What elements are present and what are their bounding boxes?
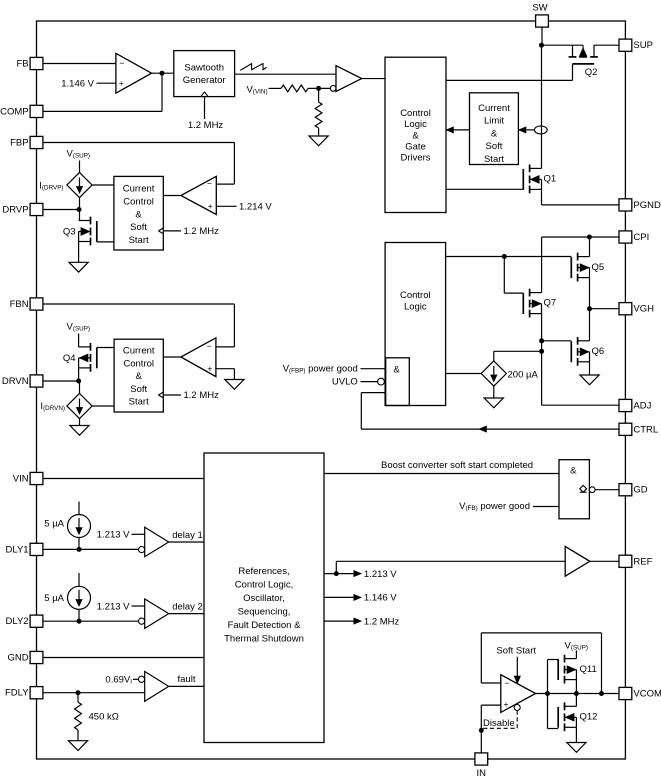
- svg-text:Q6: Q6: [592, 346, 605, 357]
- wire comparator output to current control: [163, 195, 181, 197]
- svg-text:0.69VI: 0.69VI: [105, 674, 132, 685]
- wire 1.213V to delay2: [132, 605, 145, 607]
- node VGH junction: [587, 306, 592, 311]
- svg-text:DRVN: DRVN: [2, 376, 29, 387]
- wire junction to Q6 gate: [542, 340, 572, 342]
- wire Q6 source to ground: [589, 362, 591, 375]
- node divider junction: [316, 86, 321, 91]
- ground below Q3: [69, 262, 88, 272]
- svg-text:Q1: Q1: [544, 174, 557, 185]
- sawtooth waveform symbol: [240, 64, 266, 71]
- block Current Control Soft Start DRVN: [114, 339, 163, 412]
- node DLY2 junction: [77, 619, 82, 624]
- svg-text:Start: Start: [129, 397, 149, 408]
- svg-text:FBP: FBP: [10, 138, 28, 149]
- svg-text:&: &: [135, 209, 142, 220]
- wire amplifier output to VCOM: [536, 693, 620, 695]
- svg-text:−: −: [505, 678, 510, 688]
- gate AND GD: [559, 460, 589, 519]
- svg-text:1.146 V: 1.146 V: [364, 593, 397, 604]
- wire Q12 drain to output: [575, 694, 577, 707]
- svg-text:&: &: [393, 365, 400, 376]
- pin FBN: [30, 298, 43, 310]
- wire Q1 source to PGND: [541, 189, 543, 205]
- wire 1.2MHz output: [324, 620, 355, 622]
- wire Q2 gate to control logic: [572, 64, 574, 81]
- wire SW stem: [541, 27, 543, 46]
- resistor 450k: [77, 693, 79, 702]
- svg-text:Sequencing,: Sequencing,: [238, 607, 291, 618]
- svg-text:ADJ: ADJ: [633, 401, 651, 412]
- wire CPI rail: [542, 236, 620, 238]
- transistor Q12: [564, 702, 566, 710]
- open drain symbol: [580, 485, 587, 492]
- node Q6 gate junction: [539, 338, 544, 343]
- wire current source to current control block: [92, 184, 114, 186]
- pin VIN: [30, 472, 43, 484]
- wire SW node to Q2: [542, 44, 584, 46]
- pin DLY1: [30, 543, 43, 555]
- node FDLY junction: [76, 690, 81, 695]
- wire 1.146V to error amp +: [97, 82, 116, 84]
- svg-text:1.213 V: 1.213 V: [97, 530, 130, 541]
- wire REF: [590, 560, 619, 562]
- node Q11/Q12 output junction: [574, 691, 579, 696]
- op-amp U1 error amplifier: [116, 53, 152, 93]
- current source 5uA DLY1: [78, 502, 80, 515]
- current source 200uA: [481, 361, 506, 386]
- wire common gate bracket: [547, 660, 549, 729]
- wire control logic to Q5 gate: [446, 256, 572, 258]
- svg-text:fault: fault: [178, 674, 196, 685]
- node gate tie junction: [545, 691, 550, 696]
- wire PWM comparator to control logic: [362, 78, 385, 80]
- wire error amp output to sawtooth generator: [152, 72, 174, 74]
- svg-text:Disable: Disable: [483, 718, 515, 729]
- node DRVP junction: [77, 207, 82, 212]
- wire 200uA to ground: [493, 386, 495, 398]
- pin DRVN: [30, 375, 43, 387]
- pin GND: [30, 651, 43, 663]
- node Q5/Q7 gate junction: [502, 254, 507, 259]
- svg-text:PGND: PGND: [633, 200, 661, 211]
- svg-text:IN: IN: [477, 768, 487, 779]
- wire + input to IN: [481, 704, 501, 706]
- wire Q11 drain to V(SUP): [575, 651, 577, 659]
- svg-text:DLY1: DLY1: [6, 544, 29, 555]
- svg-text:Logic: Logic: [404, 302, 427, 313]
- block Current Control Soft Start DRVP: [114, 176, 163, 250]
- svg-text:1.146 V: 1.146 V: [61, 79, 94, 90]
- node DLY1 junction: [77, 547, 82, 552]
- wire comparator output to current control DRVN: [163, 356, 181, 358]
- wire ADJ: [542, 404, 620, 406]
- wire V(FB) power good: [533, 506, 559, 508]
- block Control Logic: [385, 243, 446, 406]
- svg-text:Fault Detection &: Fault Detection &: [228, 620, 302, 631]
- wire current source to ground DRVN: [79, 419, 81, 426]
- svg-text:Current: Current: [478, 103, 510, 114]
- wire resistor to PWM comparator inverting input: [308, 87, 330, 89]
- gate AND for UVLO: [386, 358, 410, 406]
- block References Control Logic Oscillator: [204, 453, 324, 743]
- svg-text:delay 2: delay 2: [172, 602, 203, 613]
- svg-text:Control: Control: [400, 108, 431, 119]
- comparator fault: [145, 671, 169, 701]
- wire 5uA to DLY1 node: [78, 538, 80, 550]
- pin FB: [30, 57, 43, 69]
- ground below 200uA source: [484, 398, 503, 408]
- svg-text:Q11: Q11: [580, 664, 597, 675]
- wire DLY1: [43, 548, 139, 550]
- svg-text:Q7: Q7: [544, 298, 557, 309]
- svg-text:SUP: SUP: [633, 40, 653, 51]
- svg-text:Q2: Q2: [585, 67, 598, 78]
- svg-text:Soft: Soft: [486, 141, 503, 152]
- pin DLY2: [30, 615, 43, 627]
- block Sawtooth Generator: [174, 51, 235, 97]
- wire Q5 source to VGH: [589, 278, 591, 309]
- svg-text:CPI: CPI: [633, 232, 649, 243]
- wire feedback tap up: [601, 633, 603, 694]
- svg-text:Control: Control: [400, 290, 431, 301]
- node feedback tap junction: [599, 691, 604, 696]
- svg-text:REF: REF: [633, 556, 652, 567]
- svg-text:Control: Control: [123, 197, 154, 208]
- svg-text:Boost converter soft start com: Boost converter soft start completed: [381, 460, 533, 471]
- svg-text:+: +: [207, 363, 212, 373]
- wire 1.2 MHz into current control DRVN: [163, 394, 181, 396]
- comparator delay 2: [145, 599, 169, 629]
- wire current source to DRVP node: [79, 198, 81, 221]
- wire Q1 gate to control logic: [446, 188, 523, 190]
- wire sense to current limit with arrow: [524, 129, 534, 131]
- wire DLY2: [43, 620, 139, 622]
- wire delay1 output: [169, 541, 204, 543]
- pin COMP: [30, 105, 43, 117]
- comparator U4 negative boost: [181, 338, 216, 377]
- svg-text:&: &: [136, 371, 143, 382]
- wire junction down to Q7 gate: [503, 257, 505, 294]
- ground below I(DRVN): [70, 426, 89, 436]
- wire 1.2 MHz into sawtooth generator: [204, 97, 206, 119]
- svg-text:Start: Start: [484, 154, 504, 165]
- pin SW: [536, 15, 549, 27]
- bubble delay1 inverting input: [139, 547, 145, 553]
- svg-text:Sawtooth: Sawtooth: [184, 63, 224, 74]
- svg-text:Generator: Generator: [183, 75, 226, 86]
- wire disable dashed: [481, 711, 517, 729]
- svg-text:Q4: Q4: [63, 353, 76, 364]
- svg-text:DLY2: DLY2: [6, 616, 29, 627]
- svg-text:Q5: Q5: [592, 262, 605, 273]
- svg-text:VCOM: VCOM: [633, 689, 661, 700]
- wire current limit to control logic with arrow: [452, 129, 470, 131]
- transistor Q3: [90, 217, 92, 225]
- svg-text:1.213 V: 1.213 V: [364, 569, 397, 580]
- wire SW node down to Q1 drain: [541, 45, 543, 168]
- pin CPI: [619, 231, 632, 243]
- svg-text:VIN: VIN: [13, 474, 29, 485]
- svg-text:FDLY: FDLY: [5, 688, 29, 699]
- wire Q3 gate to current control: [97, 241, 114, 243]
- wire CTRL up to AND gate: [360, 393, 362, 430]
- wire control logic to 200uA source: [446, 373, 482, 375]
- transistor Q4: [90, 343, 92, 351]
- resistor R divider bottom: [318, 88, 320, 102]
- current source 5uA DLY2: [78, 573, 80, 586]
- wire FB to error amp: [43, 63, 116, 65]
- bubble GD output: [589, 487, 595, 493]
- svg-text:FBN: FBN: [10, 299, 29, 310]
- ground below Q12: [567, 743, 586, 753]
- wire comparator + to ground: [216, 368, 235, 370]
- wire DRVN: [43, 380, 79, 382]
- svg-text:&: &: [570, 466, 577, 477]
- wire 5uA to DLY2 node: [78, 609, 80, 621]
- ground below Q6: [580, 375, 599, 385]
- svg-text:−: −: [207, 341, 212, 351]
- svg-text:Thermal Shutdown: Thermal Shutdown: [224, 634, 304, 645]
- pin VCOM: [619, 687, 632, 699]
- transistor Q2 isolation FET: [569, 56, 577, 58]
- svg-text:delay 1: delay 1: [172, 530, 203, 541]
- svg-text:Limit: Limit: [484, 116, 504, 127]
- wire 0.69Vt to fault comparator: [133, 678, 138, 680]
- svg-text:Current: Current: [123, 184, 155, 195]
- pin REF: [619, 555, 632, 567]
- svg-text:1.2 MHz: 1.2 MHz: [188, 120, 224, 131]
- pin ADJ: [619, 399, 632, 411]
- node SW junction: [539, 43, 544, 48]
- svg-text:Oscillator,: Oscillator,: [243, 593, 285, 604]
- wire COMP: [43, 110, 162, 112]
- pin SUP: [619, 39, 632, 51]
- wire Q5 drain to CPI rail: [589, 237, 591, 257]
- wire CTRL with arrow: [361, 428, 619, 430]
- op-amp VCOM buffer: [501, 675, 536, 713]
- wire 1.214V to comparator +: [216, 205, 236, 207]
- svg-text:5 µA: 5 µA: [44, 593, 64, 604]
- wire Q7 source down to ADJ: [541, 314, 543, 406]
- svg-text:Q3: Q3: [63, 227, 76, 238]
- pin CTRL: [619, 423, 632, 435]
- wire Q11 source to output: [575, 680, 577, 694]
- current source I(DRVN): [67, 393, 92, 418]
- transistor Q11: [564, 655, 566, 663]
- svg-text:CTRL: CTRL: [633, 424, 658, 435]
- svg-text:1.214 V: 1.214 V: [239, 202, 272, 213]
- wire FDLY: [43, 692, 145, 694]
- transistor Q1 boost FET: [529, 165, 531, 173]
- svg-text:+: +: [119, 78, 124, 88]
- node CPI-Q5 junction: [587, 235, 592, 240]
- comparator U2 PWM: [336, 66, 362, 92]
- svg-text:GND: GND: [7, 653, 28, 664]
- pin VGH: [619, 303, 632, 315]
- wire VIN: [43, 478, 204, 480]
- wire VCOM feedback rail: [481, 632, 601, 634]
- wire V(FBP) power good input: [361, 368, 386, 370]
- svg-text:Drivers: Drivers: [400, 153, 430, 164]
- wire Q2 to SUP: [594, 44, 619, 46]
- svg-text:Soft: Soft: [130, 384, 147, 395]
- svg-text:1.2 MHz: 1.2 MHz: [184, 390, 220, 401]
- svg-text:Control Logic,: Control Logic,: [235, 580, 294, 591]
- svg-text:−: −: [120, 58, 125, 68]
- transistor Q6: [577, 337, 579, 345]
- ground at comparator +: [225, 380, 244, 390]
- svg-text:UVLO: UVLO: [332, 377, 358, 388]
- wire FBN to comparator: [43, 303, 235, 305]
- current sense ellipse: [534, 126, 547, 134]
- bubble disable input: [514, 705, 520, 711]
- svg-text:GD: GD: [633, 485, 647, 496]
- wire Q12 source to ground: [575, 727, 577, 742]
- svg-text:200 µA: 200 µA: [508, 370, 539, 381]
- wire delay2 output: [169, 613, 204, 615]
- wire FBP to comparator: [43, 142, 235, 144]
- wire 1.146V output: [324, 596, 355, 598]
- svg-text:Gate: Gate: [405, 142, 426, 153]
- svg-text:Logic: Logic: [404, 119, 427, 130]
- wire V(SUP) to current source: [79, 161, 81, 173]
- wire sawtooth output to PWM comparator: [235, 73, 336, 75]
- comparator U3 positive boost: [181, 176, 216, 214]
- svg-text:Q12: Q12: [580, 712, 598, 723]
- comparator delay 1: [145, 527, 169, 557]
- svg-text:DRVP: DRVP: [2, 205, 28, 216]
- ground below 450k: [68, 741, 87, 751]
- ground below divider: [309, 136, 328, 146]
- wire Q6 drain to VGH: [589, 309, 591, 341]
- pin FBP: [30, 136, 43, 148]
- pin GD: [619, 484, 632, 496]
- svg-text:Start: Start: [129, 235, 149, 246]
- svg-text:1.2 MHz: 1.2 MHz: [364, 616, 400, 627]
- svg-text:Soft: Soft: [130, 222, 147, 233]
- wire Q4 gate to current control: [97, 347, 114, 349]
- PWM comparator input bubble: [330, 86, 336, 92]
- svg-text:−: −: [207, 178, 212, 188]
- bubble fault inverting input: [138, 676, 144, 682]
- pin IN: [475, 753, 488, 765]
- svg-text:+: +: [208, 201, 213, 211]
- wire DRVN node to current source: [79, 381, 81, 393]
- wire DRVP: [43, 209, 79, 211]
- buffer REF: [565, 546, 590, 576]
- svg-text:1.213 V: 1.213 V: [97, 601, 130, 612]
- wire fault output: [169, 685, 204, 687]
- resistor R divider top: [281, 85, 308, 92]
- transistor Q7: [529, 289, 531, 297]
- pin PGND: [619, 199, 632, 211]
- wire 1.2 MHz into current control DRVP: [163, 230, 181, 232]
- wire UVLO input with bubble: [361, 381, 378, 383]
- wire 1.213V to delay1: [132, 533, 145, 535]
- wire 200uA tap to current source: [494, 350, 542, 352]
- wire GD: [595, 489, 619, 491]
- wire VGH: [590, 308, 620, 310]
- wire boost soft start completed: [324, 473, 559, 475]
- wire Q4 source to DRVN node: [78, 368, 80, 381]
- svg-text:Soft Start: Soft Start: [496, 646, 536, 657]
- pin DRVP: [30, 203, 43, 215]
- svg-text:Current: Current: [123, 346, 155, 357]
- wire Q7 drain vertical: [541, 237, 543, 293]
- svg-text:1.2 MHz: 1.2 MHz: [184, 226, 220, 237]
- svg-text:VGH: VGH: [633, 304, 654, 315]
- node IN junction: [479, 728, 484, 733]
- wire soft start arrow into amplifier: [516, 657, 518, 677]
- wire V(VIN) to resistor: [269, 87, 282, 89]
- svg-text:5 µA: 5 µA: [44, 518, 64, 529]
- svg-text:&: &: [491, 128, 498, 139]
- svg-text:&: &: [412, 130, 419, 141]
- svg-text:+: +: [504, 699, 509, 709]
- svg-text:Control: Control: [123, 358, 154, 369]
- node DRVN junction: [76, 379, 81, 384]
- transistor Q5: [577, 253, 579, 261]
- wire GND: [43, 657, 204, 659]
- svg-text:SW: SW: [532, 3, 547, 14]
- current source I(DRVP): [67, 172, 92, 197]
- wire V(SUP) to Q4 drain: [78, 334, 80, 347]
- node COMP junction: [160, 71, 165, 76]
- svg-text:FB: FB: [16, 59, 28, 70]
- wire 1.213V output with REF branch: [324, 573, 355, 575]
- block Control Logic and Gate Drivers: [385, 57, 446, 212]
- block Current Limit and Soft Start: [470, 93, 519, 165]
- wire Q3 source to ground: [78, 242, 80, 263]
- svg-text:COMP: COMP: [0, 106, 29, 117]
- pin FDLY: [30, 687, 43, 699]
- node 200uA tap junction: [539, 349, 544, 354]
- svg-text:References,: References,: [238, 566, 289, 577]
- svg-text:450 kΩ: 450 kΩ: [89, 712, 119, 723]
- bubble delay2 inverting input: [139, 618, 145, 624]
- wire current source to current control block DRVN: [92, 405, 114, 407]
- wire IN stem: [480, 730, 482, 753]
